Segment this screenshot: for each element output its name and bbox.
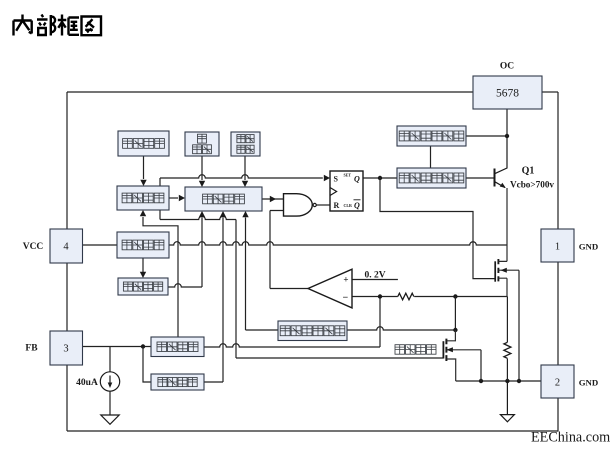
svg-text:VCC: VCC — [23, 242, 44, 252]
svg-text:Q1: Q1 — [522, 166, 535, 177]
wire: oscillator to SR-latch S input — [160, 175, 330, 186]
svg-text:SET: SET — [344, 173, 352, 178]
node: inverting node at freq-control branch — [378, 294, 382, 298]
block: 电源异常 (power supply fault) — [118, 278, 168, 295]
wire: HV constant-current startup to Q1 collector node — [466, 135, 507, 137]
pin 3 (FB) — [25, 331, 82, 365]
block: 过压保护 (over-voltage protection) — [231, 132, 260, 156]
gate U2 (NAND) — [284, 194, 317, 216]
wire: frequency control output to comparator inverting node — [204, 297, 380, 348]
transistor M2 (leading-edge blanking MOSFET) — [443, 330, 481, 381]
wire: NAND output to SR-latch R input — [317, 204, 331, 206]
comparator U3 (0.2V current-limit comparator, output on left) — [308, 269, 352, 308]
node: startup/collector junction — [505, 134, 509, 138]
wire: pin4 to power management — [83, 244, 118, 246]
label: 40uA — [76, 378, 98, 388]
wire: peak current protection to fault protection bottom (arrow up) — [242, 211, 278, 330]
pin 4 (VCC) — [23, 229, 83, 263]
svg-text:Vcbo>700v: Vcbo>700v — [510, 180, 554, 190]
block: 热保护 (thermal protection) — [185, 132, 219, 156]
label: 前沿消隐 (leading edge blanking) — [395, 345, 436, 355]
wire: HV startup to ramp drive link — [430, 146, 432, 168]
wire: OC block to Q1 collector — [506, 109, 508, 136]
wire: Q output branch to power MOSFET gate — [380, 178, 495, 279]
wire: comparator inverting input line — [352, 296, 507, 298]
label: Q1 — [522, 166, 535, 177]
flip-flop U1 (SR latch, S/SET, R/CLR, Q, Qbar) — [330, 171, 363, 211]
node: Q output branch junction — [378, 176, 382, 180]
current source I1 (40uA) — [100, 372, 119, 391]
wire: current source to ground — [109, 391, 111, 415]
svg-text:Q: Q — [354, 201, 360, 210]
wire: power management output bus (hops over 7 verticals, ends at Q1 emitter node) — [169, 242, 507, 245]
svg-text:OC: OC — [500, 62, 514, 72]
wire: frequency control to oscillator (arrow up) — [140, 210, 178, 337]
wire: outer frame top (VCC loop to OC block) — [67, 91, 473, 93]
title: 内部框图 (internal block diagram) — [14, 15, 102, 36]
block: 光耦失效 (optocoupler failure) — [151, 374, 204, 390]
svg-text:CLR: CLR — [344, 203, 353, 208]
wire: ramp current drive to Q1 base — [466, 177, 495, 179]
block: 振荡线路 (oscillator circuit) — [117, 186, 169, 210]
wire: jitter control to oscillator (arrow down) — [140, 156, 146, 186]
svg-text:FB: FB — [25, 343, 38, 353]
svg-text:GND: GND — [579, 377, 599, 387]
wire: power fault to fault protection bottom (arrow up) — [168, 211, 205, 287]
wire: source ground rail to pin 2 — [456, 380, 541, 382]
svg-text:5678: 5678 — [496, 88, 519, 100]
svg-text:40uA: 40uA — [76, 378, 98, 388]
block: 高压恒流启动 (HV constant current startup) — [397, 126, 466, 146]
node: blanking drain junction — [453, 328, 457, 332]
watermark: EEChina.com — [531, 429, 610, 445]
pin 1 (GND) — [541, 229, 598, 262]
wire: optocoupler failure to fault protection bottom (arrow up) — [204, 211, 226, 382]
wire: OC block to right rail — [542, 91, 558, 93]
block: 电源管理 (power management) — [117, 232, 169, 258]
resistor R1 (comparator input series resistor) — [398, 293, 414, 300]
svg-text:2: 2 — [555, 378, 560, 389]
node: FB junction — [141, 344, 145, 348]
svg-text:EEChina.com: EEChina.com — [531, 429, 610, 445]
svg-text:3: 3 — [63, 344, 68, 355]
svg-text:S: S — [334, 175, 339, 184]
wire: MOSFET source to sense resistor — [506, 297, 508, 382]
wire: SR-latch Q output to ramp current drive — [363, 177, 397, 179]
label: 0.2V reference — [364, 270, 385, 280]
wire: power management to power fault (arrow down) — [140, 258, 146, 278]
block: 异常保护 (fault protection) — [185, 187, 262, 211]
wire: peak current protection to blanking drain node — [347, 327, 455, 330]
svg-text:1: 1 — [555, 242, 560, 253]
svg-text:0. 2V: 0. 2V — [364, 270, 385, 280]
block: 变频控制 (frequency conversion control) — [151, 337, 204, 357]
block: 抖频控制 (jitter frequency control) — [118, 131, 169, 156]
transistor Q1 (NPN, Vcbo>700v) — [495, 136, 508, 261]
pin 2 (GND) — [541, 365, 598, 398]
node: power MOSFET body junction — [517, 379, 521, 383]
svg-text:4: 4 — [63, 242, 69, 253]
wire: oscillator to fault protection (arrow right) — [169, 195, 185, 201]
label: Vcbo>700v — [510, 180, 554, 190]
wire: 0.2V reference stub (non-inverting input) — [352, 279, 398, 281]
wire: outer frame left rail (pin4/pin3 rail) — [66, 92, 68, 431]
wire: M1 body to ground rail — [518, 270, 520, 381]
svg-text:R: R — [334, 201, 340, 210]
svg-text:GND: GND — [579, 241, 599, 251]
svg-text:−: − — [343, 292, 349, 303]
wire: over-voltage protection to fault protection (arrow down) — [242, 156, 248, 187]
wire: M2 body to ground rail — [480, 350, 482, 381]
block: 峰值电流保护 (peak current protection) — [278, 321, 347, 341]
node: sense resistor ground junction — [505, 379, 509, 383]
wire: outer frame bottom rail — [67, 430, 558, 432]
transistor M1 (power MOSFET) — [495, 259, 519, 297]
node: blanking body junction — [479, 379, 483, 383]
block: 斜坡电流驱动 (ramp current drive) — [397, 168, 466, 188]
wire: outer frame right rail (GND pins rail) — [557, 92, 559, 431]
node: inverting node at blanking branch — [453, 294, 457, 298]
wire: fault protection to NAND gate input (arrow) — [262, 196, 284, 202]
resistor R2 (current sense resistor) — [504, 342, 511, 358]
wire: blanking drain node vertical — [454, 297, 456, 331]
svg-text:Q: Q — [354, 175, 360, 184]
wire: comparator output to NAND gate lower input — [270, 211, 308, 289]
svg-text:+: + — [343, 275, 348, 285]
wire: FB pin to frequency control — [83, 347, 152, 372]
wire: FB junction to optocoupler failure — [143, 347, 151, 383]
block: OC output block 5678 — [473, 76, 542, 109]
wire: oscillator to blanking MOSFET gate (long route) — [160, 210, 443, 358]
ground (under 40uA source) — [101, 415, 119, 424]
label: OC — [500, 62, 514, 72]
ground (main, under sense resistor) — [500, 381, 514, 422]
wire: thermal protection to fault protection (arrow down) — [199, 156, 205, 187]
